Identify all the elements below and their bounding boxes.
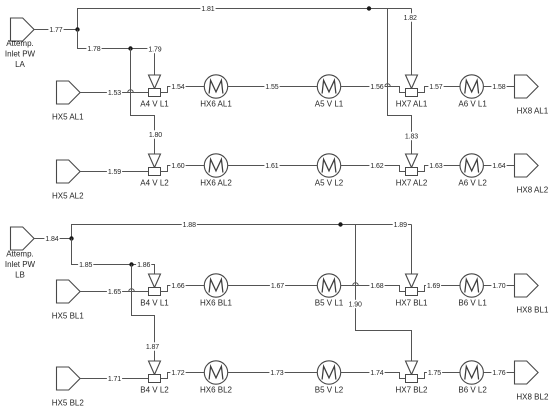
svg-text:A6 V L2: A6 V L2 (458, 178, 487, 187)
label HX8 BL2 text (516, 392, 549, 401)
value label 1.57 (428, 82, 443, 91)
svg-text:1.62: 1.62 (370, 163, 383, 170)
svg-text:1.82: 1.82 (404, 15, 417, 22)
svg-text:B5 V L1: B5 V L1 (315, 298, 344, 307)
motor pump B5 V L1 (317, 274, 340, 297)
wire 1.84 inlet LB to junction (34, 238, 71, 240)
svg-text:1.66: 1.66 (171, 283, 184, 290)
wire 1.83 branch to HX7 AL2 (388, 9, 412, 155)
wire crossover hop 1.53 over branch (128, 90, 134, 93)
wire 1.54 A4 V L1 to HX6 AL1 (161, 87, 205, 93)
svg-text:A5 V L2: A5 V L2 (315, 178, 344, 187)
svg-text:1.53: 1.53 (108, 90, 121, 97)
svg-text:A4 V L1: A4 V L1 (140, 99, 169, 108)
motor pump B6 V L1 (460, 274, 483, 297)
wire crossover hop 1.56 over branch (385, 84, 391, 87)
label A4 V L1 text (140, 99, 169, 108)
wire 1.73 HX6 BL2 to B5 V L2 (228, 372, 318, 374)
motor pump B6 V L2 (460, 361, 483, 384)
svg-text:1.73: 1.73 (270, 370, 283, 377)
svg-text:HX7 AL2: HX7 AL2 (396, 178, 428, 187)
label HX6 BL2 text (200, 385, 233, 394)
value label 1.74 (369, 368, 384, 377)
label HX8 BL1 text (516, 305, 549, 314)
wire 1.66 B4 V L1 to HX6 BL1 (161, 286, 205, 292)
junction dot A header junction (75, 27, 79, 31)
wire 1.64 A6 V L2 to HX8 AL2 (483, 165, 514, 167)
motor pump HX6 AL2 (204, 154, 227, 177)
label HX6 BL1 text (200, 298, 233, 307)
value label 1.53 (107, 88, 122, 97)
svg-text:HX8 BL1: HX8 BL1 (516, 305, 549, 314)
motor pump A5 V L2 (317, 154, 340, 177)
svg-text:1.88: 1.88 (183, 222, 196, 229)
svg-text:Attemp.: Attemp. (6, 39, 34, 48)
wire 1.63 HX7 AL2 to A6 V L2 (418, 166, 461, 172)
svg-text:1.65: 1.65 (108, 289, 121, 296)
wire 1.78 1.79 feed to A4 V L1 (78, 30, 155, 76)
svg-text:A5 V L1: A5 V L1 (315, 99, 344, 108)
value label 1.77 (48, 25, 63, 34)
motor pump HX6 AL1 (204, 75, 227, 98)
label inlet LA text line2 (5, 49, 36, 58)
junction dot B feed junction (129, 262, 133, 266)
valve HX7 AL2 (406, 154, 418, 176)
value label 1.62 (369, 161, 384, 170)
svg-text:1.60: 1.60 (171, 163, 184, 170)
wire 1.55 HX6 AL1 to A5 V L1 (228, 86, 318, 88)
valve HX7 BL1 (406, 274, 418, 296)
junction dot B header branch junction (338, 222, 342, 226)
wire crossover hop 1.68 over branch (353, 283, 359, 286)
inlet pentagon Attemp Inlet PW LB (11, 227, 35, 250)
label HX5 AL2 text (52, 191, 84, 200)
svg-text:B4 V L2: B4 V L2 (140, 385, 169, 394)
value label 1.81 (200, 4, 215, 13)
svg-text:HX8 AL2: HX8 AL2 (517, 185, 549, 194)
label HX6 AL1 text (200, 99, 232, 108)
svg-text:1.81: 1.81 (201, 6, 214, 13)
svg-text:1.68: 1.68 (370, 283, 383, 290)
label A5 V L2 text (315, 178, 344, 187)
motor pump A6 V L1 (460, 75, 483, 98)
motor pump A5 V L1 (317, 75, 340, 98)
value label 1.82 (403, 13, 418, 22)
wire 1.82 header drop to HX7 AL1 (411, 9, 413, 76)
value label 1.71 (107, 374, 122, 383)
value label 1.83 (404, 132, 419, 141)
value label 1.89 (393, 220, 408, 229)
label HX5 AL1 text (52, 112, 84, 121)
svg-text:HX6 AL2: HX6 AL2 (200, 178, 232, 187)
svg-text:1.76: 1.76 (492, 370, 505, 377)
svg-text:1.74: 1.74 (370, 370, 383, 377)
wire 1.58 A6 V L1 to HX8 AL1 (483, 86, 514, 88)
value label 1.68 (369, 281, 384, 290)
svg-text:HX7 BL1: HX7 BL1 (395, 298, 428, 307)
source pentagon HX5 AL1 (57, 81, 81, 104)
wire 1.76 B6 V L2 to HX8 BL2 (483, 372, 514, 374)
label B5 V L2 text (315, 385, 344, 394)
value label 1.75 (427, 368, 442, 377)
source pentagon HX5 AL2 (57, 160, 81, 183)
svg-text:1.59: 1.59 (108, 169, 121, 176)
value label 1.56 (369, 82, 384, 91)
svg-text:1.84: 1.84 (45, 236, 58, 243)
wire header drop to HX7 BL1 (411, 225, 413, 275)
value label 1.73 (269, 368, 284, 377)
svg-text:1.87: 1.87 (146, 344, 159, 351)
svg-text:Inlet PW: Inlet PW (5, 49, 36, 58)
motor pump HX6 BL1 (204, 274, 227, 297)
wire 1.75 HX7 BL2 to B6 V L2 (418, 373, 461, 379)
svg-text:1.63: 1.63 (429, 163, 442, 170)
svg-text:HX6 AL1: HX6 AL1 (200, 99, 232, 108)
label inlet LB text line2 (5, 260, 36, 269)
valve A4 V L1 (149, 75, 161, 97)
svg-text:1.56: 1.56 (370, 84, 383, 91)
value label 1.86 (136, 260, 151, 269)
svg-text:1.80: 1.80 (149, 132, 162, 139)
value label 1.85 (78, 260, 93, 269)
label inlet LA text line1 (6, 39, 34, 48)
value label 1.70 (491, 281, 506, 290)
wire 1.56 A5 V L1 to HX7 AL1 (341, 87, 406, 93)
valve HX7 AL1 (406, 75, 418, 97)
svg-text:HX6 BL2: HX6 BL2 (200, 385, 233, 394)
value label 1.65 (107, 287, 122, 296)
wire 1.90 branch to HX7 BL2 (356, 225, 412, 362)
label HX7 BL1 text (395, 298, 428, 307)
wire 1.81 top header A (78, 9, 412, 30)
wire 1.65 HX5 BL1 to B4 V L1 (80, 291, 148, 293)
label B4 V L1 text (140, 298, 169, 307)
wire 1.62 A5 V L2 to HX7 AL2 (341, 166, 406, 172)
svg-text:1.61: 1.61 (265, 163, 278, 170)
inlet pentagon Attemp Inlet PW LA (11, 18, 35, 41)
svg-text:Inlet PW: Inlet PW (5, 260, 36, 269)
svg-text:1.85: 1.85 (79, 262, 92, 269)
junction dot A header branch junction (367, 6, 371, 10)
value label 1.60 (170, 161, 185, 170)
value label 1.84 (44, 234, 59, 243)
value label 1.80 (148, 130, 163, 139)
wire 1.77 inlet LA to junction (34, 29, 77, 31)
svg-text:1.86: 1.86 (137, 262, 150, 269)
svg-text:1.75: 1.75 (428, 370, 441, 377)
motor pump HX6 BL2 (204, 361, 227, 384)
label HX7 AL1 text (396, 99, 428, 108)
label B4 V L2 text (140, 385, 169, 394)
wire 1.68 B5 V L1 to HX7 BL1 (341, 286, 406, 292)
svg-text:B4 V L1: B4 V L1 (140, 298, 169, 307)
wire 1.80 feed to A4 V L2 (131, 49, 155, 155)
wire 1.71 HX5 BL2 to B4 V L2 (80, 378, 148, 380)
motor pump B5 V L2 (317, 361, 340, 384)
wire 1.60 A4 V L2 to HX6 AL2 (161, 166, 205, 172)
outlet pentagon HX8 AL1 (515, 75, 539, 98)
svg-text:1.58: 1.58 (492, 84, 505, 91)
value label 1.69 (426, 281, 441, 290)
value label 1.79 (147, 45, 162, 54)
svg-text:A4 V L2: A4 V L2 (140, 178, 169, 187)
label HX8 AL1 text (517, 106, 549, 115)
svg-text:1.78: 1.78 (87, 46, 100, 53)
label B6 V L2 text (458, 385, 487, 394)
value label 1.87 (145, 342, 160, 351)
wire 1.85 1.86 feed to B4 V L1 (72, 239, 155, 275)
motor pump A6 V L2 (460, 154, 483, 177)
label HX6 AL2 text (200, 178, 232, 187)
value label 1.90 (348, 300, 363, 309)
svg-text:HX7 AL1: HX7 AL1 (396, 99, 428, 108)
label HX7 BL2 text (395, 385, 428, 394)
svg-text:1.67: 1.67 (271, 283, 284, 290)
outlet pentagon HX8 BL1 (515, 274, 539, 297)
svg-text:HX8 AL1: HX8 AL1 (517, 106, 549, 115)
svg-text:LB: LB (15, 270, 25, 279)
value label 1.58 (491, 82, 506, 91)
svg-text:1.70: 1.70 (492, 283, 505, 290)
svg-text:B5 V L2: B5 V L2 (315, 385, 344, 394)
value label 1.54 (170, 82, 185, 91)
svg-text:1.57: 1.57 (429, 84, 442, 91)
value label 1.55 (264, 82, 279, 91)
wire 1.88 1.89 top header B (72, 225, 412, 239)
label A4 V L2 text (140, 178, 169, 187)
value label 1.61 (264, 161, 279, 170)
svg-text:HX6 BL1: HX6 BL1 (200, 298, 233, 307)
svg-text:1.72: 1.72 (171, 370, 184, 377)
wire 1.72 B4 V L2 to HX6 BL2 (161, 373, 205, 379)
label HX8 AL2 text (517, 185, 549, 194)
wire 1.61 HX6 AL2 to A5 V L2 (228, 165, 318, 167)
wire 1.70 B6 V L1 to HX8 BL1 (483, 285, 514, 287)
label B6 V L1 text (458, 298, 487, 307)
value label 1.64 (491, 161, 506, 170)
value label 1.76 (491, 368, 506, 377)
label HX5 BL1 text (52, 311, 85, 320)
label A5 V L1 text (315, 99, 344, 108)
svg-text:1.77: 1.77 (49, 27, 62, 34)
wire 1.69 HX7 BL1 to B6 V L1 (418, 286, 461, 292)
label inlet LB text line3 (15, 270, 25, 279)
wire 1.87 feed to B4 V L2 (132, 265, 155, 362)
svg-text:1.90: 1.90 (349, 302, 362, 309)
label inlet LA text line3 (15, 60, 25, 69)
svg-text:HX5 AL2: HX5 AL2 (52, 191, 84, 200)
label HX5 BL2 text (52, 398, 85, 407)
wire 1.57 HX7 AL1 to A6 V L1 (418, 87, 461, 93)
outlet pentagon HX8 AL2 (515, 154, 539, 177)
svg-text:LA: LA (15, 60, 25, 69)
svg-text:B6 V L2: B6 V L2 (458, 385, 487, 394)
valve A4 V L2 (149, 154, 161, 176)
svg-text:HX7 BL2: HX7 BL2 (395, 385, 428, 394)
svg-text:1.69: 1.69 (427, 283, 440, 290)
svg-text:B6 V L1: B6 V L1 (458, 298, 487, 307)
label A6 V L2 text (458, 178, 487, 187)
wire 1.74 B5 V L2 to HX7 BL2 (341, 373, 406, 379)
value label 1.88 (182, 220, 197, 229)
svg-text:1.83: 1.83 (405, 134, 418, 141)
svg-text:HX5 AL1: HX5 AL1 (52, 112, 84, 121)
svg-text:1.79: 1.79 (148, 47, 161, 54)
svg-text:1.71: 1.71 (108, 376, 121, 383)
svg-text:Attemp.: Attemp. (6, 249, 34, 258)
svg-text:A6 V L1: A6 V L1 (458, 99, 487, 108)
svg-text:HX8 BL2: HX8 BL2 (516, 392, 549, 401)
label A6 V L1 text (458, 99, 487, 108)
valve B4 V L1 (149, 274, 161, 296)
label inlet LB text line1 (6, 249, 34, 258)
wire crossover hop 1.65 over branch (129, 289, 135, 292)
junction dot B header junction (69, 236, 73, 240)
value label 1.72 (170, 368, 185, 377)
svg-text:1.54: 1.54 (171, 84, 184, 91)
wire 1.59 HX5 AL2 to A4 V L2 (80, 171, 148, 173)
source pentagon HX5 BL1 (57, 280, 81, 303)
label B5 V L1 text (315, 298, 344, 307)
value label 1.59 (107, 167, 122, 176)
outlet pentagon HX8 BL2 (515, 361, 539, 384)
valve B4 V L2 (149, 361, 161, 383)
svg-text:1.55: 1.55 (265, 84, 278, 91)
value label 1.67 (270, 281, 285, 290)
source pentagon HX5 BL2 (57, 367, 81, 390)
wire 1.67 HX6 BL1 to B5 V L1 (228, 285, 318, 287)
value label 1.63 (428, 161, 443, 170)
label HX7 AL2 text (396, 178, 428, 187)
value label 1.78 (86, 44, 101, 53)
junction dot A feed junction (128, 46, 132, 50)
value label 1.66 (170, 281, 185, 290)
svg-text:HX5 BL1: HX5 BL1 (52, 311, 85, 320)
svg-text:HX5 BL2: HX5 BL2 (52, 398, 85, 407)
svg-text:1.64: 1.64 (492, 163, 505, 170)
valve HX7 BL2 (406, 361, 418, 383)
wire 1.53 HX5 AL1 to A4 V L1 (80, 92, 148, 94)
svg-text:1.89: 1.89 (394, 222, 407, 229)
